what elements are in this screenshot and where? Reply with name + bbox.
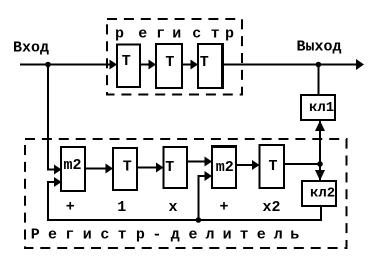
wire T2-T3 [182, 64, 191, 66]
arrow down into кл2 [315, 170, 325, 181]
arrow into T5 [156, 163, 164, 173]
junction output node [316, 62, 322, 68]
flipflop T3 [198, 44, 224, 88]
wire feedback mid riser [198, 176, 200, 220]
svg-text:Т: Т [123, 159, 132, 176]
svg-text:Т: Т [200, 54, 209, 71]
arrow into T3 [191, 60, 199, 70]
flipflop T5 [164, 147, 188, 188]
arrow into T1 [110, 60, 118, 70]
svg-text:Т: Т [165, 54, 174, 71]
svg-text:1: 1 [117, 199, 126, 216]
wire feedback left riser [47, 182, 49, 220]
wire junction to кл2 [319, 164, 321, 181]
svg-text:кл2: кл2 [310, 186, 335, 202]
dashed box register (регистр) [107, 19, 242, 95]
svg-text:Вход: Вход [13, 40, 49, 57]
arrow up into кл1 [315, 121, 325, 132]
svg-text:+: + [220, 199, 229, 216]
adder m2-2 [212, 145, 236, 188]
wire output horizontal [223, 64, 357, 66]
wire stub into m2 input2 [47, 181, 55, 183]
arrow output [356, 59, 364, 70]
wire stub into m2 input1 [47, 169, 55, 171]
wire T1-T2 [140, 64, 149, 66]
wire кл2 bottom drop [320, 206, 322, 221]
junction input node [45, 62, 51, 68]
svg-text:Т: Т [165, 159, 174, 176]
arrow into T6 [252, 160, 260, 170]
switch кл1 [301, 95, 335, 120]
wire output to кл1 [318, 65, 320, 96]
arrow into m2-2 [205, 157, 213, 167]
dashed box register-divider (Регистр-делитель) [25, 139, 347, 248]
wire input horizontal [20, 64, 111, 66]
svg-text:Выход: Выход [297, 39, 342, 56]
wire input vertical drop [47, 65, 49, 171]
flipflop T4 [113, 148, 137, 190]
arrow into m2 input1 [54, 165, 62, 175]
wire m2-2 to T6 [236, 164, 252, 166]
svg-text:х2: х2 [263, 199, 281, 216]
wire stub into m2-2 input2 [198, 175, 207, 177]
junction feedback node [196, 217, 202, 223]
arrow into T2 [149, 60, 157, 70]
wire T4 to T5 [137, 167, 157, 169]
arrow into m2-2 input2 [205, 171, 213, 181]
flipflop T2 [156, 44, 182, 88]
adder m2-1 [61, 147, 85, 191]
svg-text:кл1: кл1 [309, 100, 334, 116]
switch кл2 [302, 181, 336, 206]
svg-text:m2: m2 [216, 159, 234, 176]
wire T6 to кл junction [284, 163, 320, 165]
svg-text:х: х [169, 199, 178, 216]
wire m2-1 to T4 [85, 168, 106, 170]
flipflop T1 [117, 45, 140, 88]
svg-text:m2: m2 [64, 157, 82, 174]
flipflop T6 [260, 145, 285, 188]
wire feedback horizontal [47, 219, 322, 221]
svg-text:Т: Т [269, 158, 278, 175]
svg-text:+: + [66, 199, 75, 216]
arrow into T4 [106, 164, 114, 174]
junction кл node [317, 161, 323, 167]
arrow into m2 input2 [54, 177, 62, 187]
wire кл1 to junction [319, 120, 321, 164]
svg-text:Т: Т [122, 53, 131, 70]
wire T5 to m2-2 [187, 161, 205, 163]
